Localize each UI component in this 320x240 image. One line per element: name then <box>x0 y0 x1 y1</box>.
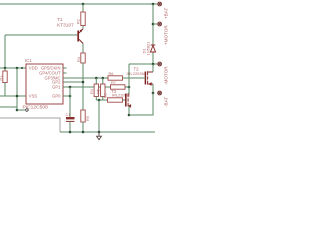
node sense junction <box>128 86 131 89</box>
pad -BAT <box>158 91 162 95</box>
wire T3 drain column <box>128 64 130 94</box>
svg-text:R1: R1 <box>0 76 3 81</box>
wire T3 source down <box>128 106 130 115</box>
wire descender to ground <box>98 100 100 132</box>
svg-text:R3: R3 <box>77 57 81 62</box>
wire source to -BAT rail <box>129 93 153 115</box>
node R9 ground <box>82 131 85 134</box>
resistor R4 pulldown1 <box>94 84 98 97</box>
node T3 source junction <box>128 114 131 117</box>
wire GP0 row <box>67 95 71 97</box>
wire R9 bottom stub <box>82 122 84 132</box>
wire C1 column <box>69 87 71 117</box>
resistor R6 gate T2 <box>108 76 123 80</box>
transistor T1 KT3107 PNP <box>78 29 83 44</box>
IC right pin stubs <box>63 68 67 96</box>
transistor T2 IRL2203N <box>145 71 153 85</box>
wire VSS row <box>0 95 26 97</box>
svg-text:IRL2203N: IRL2203N <box>112 93 130 98</box>
node GND descender <box>98 99 101 102</box>
svg-text:1N5821: 1N5821 <box>146 41 151 56</box>
node junction R2 top <box>82 3 85 6</box>
resistor R9 bottom <box>81 110 85 122</box>
wire R7 to drain column <box>125 86 129 88</box>
svg-text:R8: R8 <box>103 93 107 98</box>
svg-text:R2: R2 <box>77 19 81 24</box>
wire ground rail <box>60 131 155 133</box>
svg-text:KT3107: KT3107 <box>57 23 74 29</box>
svg-text:GP0: GP0 <box>52 94 61 99</box>
wire R2 top stub <box>82 4 84 12</box>
svg-text:GP1: GP1 <box>52 85 61 90</box>
resistor R7 sense <box>111 85 126 89</box>
wire Rv2 bottom stub <box>102 97 104 101</box>
svg-text:VDD: VDD <box>29 66 38 71</box>
resistor R3 <box>81 53 85 63</box>
wire R6 to T2 gate <box>123 77 146 79</box>
wire C1 bottom stub <box>69 121 71 132</box>
svg-text:C1: C1 <box>66 113 71 117</box>
node GP0 junction <box>69 95 72 98</box>
wire left mid stub <box>0 106 17 108</box>
ground symbol <box>97 132 102 140</box>
svg-text:R5: R5 <box>97 89 101 94</box>
svg-text:R9: R9 <box>86 116 90 121</box>
pad +BAT <box>158 2 162 6</box>
node VDD R1 <box>4 67 7 70</box>
node ground junction <box>98 131 101 134</box>
svg-text:IC1: IC1 <box>25 58 32 63</box>
transistor T3 IRL2203N <box>126 93 131 107</box>
wire R8 to T3 gate <box>123 99 126 101</box>
wire bottom left stub <box>17 109 25 111</box>
svg-text:+BAT: +BAT <box>164 8 169 19</box>
wire -MOTOR row <box>129 63 157 65</box>
node VSS branch <box>16 95 19 98</box>
wire R1 bottom stub <box>4 83 6 97</box>
node -MOTOR junction <box>152 63 155 66</box>
svg-text:-BAT: -BAT <box>164 97 169 107</box>
svg-text:R6: R6 <box>109 72 114 76</box>
svg-text:PIC12C508: PIC12C508 <box>23 104 49 110</box>
wire T1 collector down <box>82 44 84 54</box>
svg-text:R4: R4 <box>90 89 94 94</box>
capacitor C1 minus plate <box>66 120 75 122</box>
node Rv2 top <box>102 77 105 80</box>
diode D1 <box>151 45 156 52</box>
node GP2 R3 junction <box>82 81 85 84</box>
wire left branch vertical <box>16 68 18 110</box>
wire T1 base <box>5 34 77 36</box>
wire +BAT top rail <box>0 3 157 5</box>
resistor R2 <box>81 12 85 26</box>
resistor R8 gate T3 <box>108 98 123 102</box>
wire GP2 row <box>67 81 84 83</box>
svg-text:R7: R7 <box>111 81 116 85</box>
wire Rv1 bottom stub <box>95 97 97 101</box>
svg-text:T1: T1 <box>57 17 63 23</box>
node C1 branch <box>69 86 72 89</box>
wire R1 top stub <box>4 68 6 71</box>
IC1 PIC12C508 box <box>26 64 63 104</box>
node -BAT junction <box>152 92 155 95</box>
node VDD branch <box>16 67 19 70</box>
node +MOTOR junction <box>152 23 155 26</box>
wire VDD row <box>0 67 26 69</box>
svg-text:VSS: VSS <box>29 94 38 99</box>
wire R2 bottom stub <box>82 26 84 29</box>
svg-text:-MOTOR: -MOTOR <box>164 66 169 85</box>
pad -MOTOR <box>158 62 162 66</box>
node bottom left <box>16 109 19 112</box>
wire left column from base <box>4 35 6 68</box>
resistor R1 <box>3 71 7 83</box>
wire joint row <box>96 99 107 101</box>
wire GP3 gate row <box>67 77 109 79</box>
wire right vertical rail <box>152 4 154 64</box>
node pin end VDD <box>21 67 23 69</box>
wire R3 bottom to GP2 junction <box>82 63 84 110</box>
node Rv1 top <box>95 77 98 80</box>
wire GP1 row <box>67 86 111 88</box>
capacitor C1 plus plate <box>66 117 75 119</box>
resistor R5 pulldown2 <box>101 84 105 97</box>
node C1 ground <box>69 131 72 134</box>
node port diamond <box>25 108 28 111</box>
wire Rv2 top stub <box>102 78 104 84</box>
wire T2 drain/source to rail <box>152 64 154 93</box>
node junction right rail top <box>152 3 155 6</box>
svg-text:+MOTOR: +MOTOR <box>164 25 169 45</box>
wire Rv1 top stub <box>95 78 97 84</box>
pad +MOTOR <box>158 22 162 26</box>
wire gray net <box>0 118 60 132</box>
wire pad stub +MOTOR <box>153 23 157 25</box>
